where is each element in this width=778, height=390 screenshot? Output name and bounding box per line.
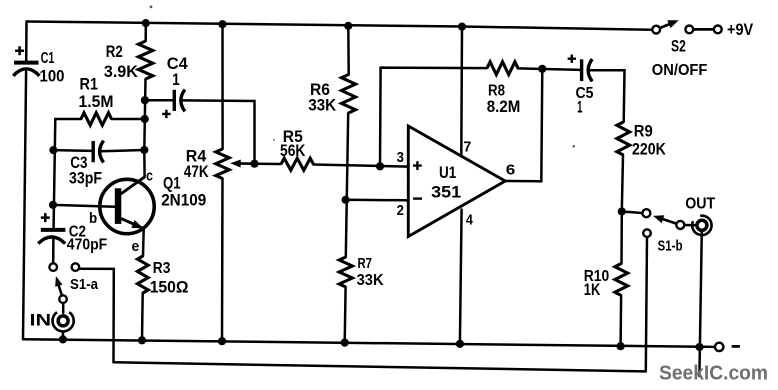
wire OUT jack stem	[699, 231, 701, 376]
switch S1-a pole contact	[49, 263, 57, 271]
svg-text:U1: U1	[439, 164, 456, 182]
wire bypass rail	[114, 362, 646, 371]
value C4 1	[172, 70, 180, 89]
wire IN switch stem	[62, 303, 65, 313]
wire R1 right lead	[112, 118, 144, 121]
svg-text:e: e	[132, 238, 140, 255]
svg-text:Q1: Q1	[163, 175, 181, 193]
junction R1 tap	[141, 115, 149, 123]
svg-text:33K: 33K	[357, 272, 385, 289]
S2 blade arrowhead	[667, 20, 678, 28]
wire R4 branch top	[221, 24, 224, 149]
C5 polarity plus	[568, 55, 576, 63]
value R6 33K	[308, 97, 336, 115]
label S2	[671, 37, 686, 55]
label C3	[70, 154, 87, 172]
potentiometer R4 47K	[216, 149, 229, 179]
wire S2 contact link	[693, 28, 714, 31]
Q1 emitter stroke	[121, 218, 144, 228]
svg-text:33pF: 33pF	[69, 170, 102, 188]
wire IN jack ground stem	[62, 332, 65, 340]
OUT jack outer ring	[692, 216, 711, 235]
svg-text:S2: S2	[671, 37, 686, 55]
wire pin7	[460, 27, 463, 156]
svg-text:2N109: 2N109	[161, 192, 206, 210]
wire R2 top lead	[144, 23, 147, 41]
resistor R7 33K	[339, 257, 352, 287]
svg-text:1: 1	[172, 70, 180, 89]
label R2	[106, 43, 123, 61]
junction C4 tap	[141, 96, 149, 104]
svg-text:SeekIC.com: SeekIC.com	[659, 361, 768, 384]
pin 6	[506, 162, 516, 179]
label C2	[69, 224, 86, 241]
resistor R3 150ohm	[137, 256, 148, 293]
speck	[573, 145, 576, 148]
svg-text:R8: R8	[488, 82, 505, 99]
svg-text:56K: 56K	[280, 142, 306, 160]
wire S1b pole lead	[622, 212, 643, 214]
pin 2	[397, 202, 404, 219]
capacitor C1 100	[13, 63, 39, 76]
S1-a common	[59, 295, 67, 303]
watermark SeekIC.com	[659, 361, 768, 384]
wire R8 to C5	[518, 68, 580, 70]
junction top rail pin7	[458, 23, 466, 31]
label R9	[634, 122, 653, 140]
pin 7	[463, 139, 471, 156]
speck	[273, 139, 275, 141]
value R7 33K	[357, 272, 385, 289]
wire R10 bottom lead	[619, 296, 622, 347]
junction ground R4	[218, 337, 226, 345]
label IN	[30, 311, 52, 330]
svg-text:+9V: +9V	[727, 21, 753, 39]
svg-text:7: 7	[463, 139, 471, 156]
wire C4 left lead	[145, 99, 173, 102]
Q1 base label b	[89, 210, 97, 227]
junction ground IN jack	[59, 335, 67, 343]
wire noninverting input	[255, 162, 282, 165]
wire bottom ground rail	[23, 339, 715, 347]
label OUT	[685, 196, 715, 213]
label S1-a	[70, 277, 99, 293]
junction ground R7	[341, 339, 349, 347]
svg-text:100: 100	[40, 67, 65, 86]
svg-text:1K: 1K	[584, 281, 601, 299]
S1-b blade	[660, 218, 677, 224]
wire node to R10	[620, 212, 623, 264]
switch S2 pole contact	[652, 26, 660, 34]
capacitor C4 1	[174, 90, 185, 112]
label C4	[167, 55, 188, 73]
wire S1a throw lead	[79, 269, 114, 363]
transistor Q1 circle	[100, 179, 154, 233]
svg-text:33K: 33K	[308, 97, 336, 115]
value C3 33pF	[69, 170, 102, 188]
resistor R9 220K	[617, 122, 630, 155]
Q1 emitter label e	[132, 238, 140, 255]
svg-text:47K: 47K	[184, 163, 209, 181]
label R3	[153, 260, 171, 277]
svg-text:2: 2	[397, 202, 404, 219]
label Q1	[163, 175, 181, 193]
value Q1 2N109	[161, 192, 206, 210]
value R5 56K	[280, 142, 306, 160]
wire emitter lead	[142, 229, 145, 256]
S1-a blade	[58, 284, 62, 296]
junction C3 left tap	[49, 146, 57, 154]
wire left vertical rail lower	[23, 72, 26, 340]
wire left branch lower	[52, 239, 55, 264]
Q1 collector stroke	[121, 177, 145, 194]
IN jack inner ring	[58, 316, 68, 326]
label +9V	[727, 21, 753, 39]
switch S1-b pole contact	[642, 209, 650, 217]
label S1-b	[658, 239, 683, 255]
wire inverting input	[346, 199, 409, 202]
svg-text:S1-a: S1-a	[70, 277, 99, 293]
svg-text:1.5M: 1.5M	[79, 93, 114, 111]
svg-text:6: 6	[506, 162, 516, 179]
value R1 1.5M	[79, 93, 114, 111]
junction top rail R4	[218, 20, 226, 28]
value C2 470pF	[67, 236, 108, 253]
wire R9 to S1b node	[622, 155, 623, 212]
value R10 1K	[584, 281, 601, 299]
svg-text:S1-b: S1-b	[658, 239, 683, 255]
svg-text:OUT: OUT	[685, 196, 715, 213]
wire output pin6	[505, 69, 542, 181]
wire R1 left lead	[55, 118, 81, 121]
R4 wiper arrowhead	[230, 160, 241, 168]
value R3 150ohm	[150, 279, 189, 297]
svg-text:1: 1	[577, 98, 583, 116]
svg-text:R1: R1	[80, 76, 99, 94]
junction C3 right tap	[140, 146, 148, 154]
junction R8 C5 output node	[538, 65, 546, 73]
wire S1b throw to OUT jack	[684, 224, 696, 227]
resistor R5 56K	[281, 158, 314, 170]
S1-b blade arrowhead	[653, 215, 664, 223]
svg-text:3: 3	[397, 149, 404, 166]
value R8 8.2M	[487, 98, 521, 116]
junction R9 S1b node	[618, 207, 626, 215]
S2 battery terminal	[714, 26, 722, 34]
svg-text:C1: C1	[41, 50, 55, 67]
label R6	[310, 81, 330, 99]
S1-b lower contact	[643, 229, 651, 237]
Q1 collector label c	[146, 167, 153, 184]
wire feedback left	[380, 68, 487, 167]
junction base node	[49, 201, 57, 209]
wire pin4	[460, 210, 462, 344]
capacitor C5 1	[582, 59, 593, 81]
svg-text:220K: 220K	[632, 140, 666, 158]
resistor R6 33K	[342, 75, 356, 114]
junction feedback to pin3	[376, 162, 384, 170]
wire R6-R7 middle	[346, 113, 348, 257]
svg-text:3.9K: 3.9K	[104, 63, 138, 81]
negative battery terminal	[715, 343, 723, 351]
wire top supply rail	[27, 22, 653, 30]
pin 4	[466, 211, 474, 228]
label R1	[80, 76, 99, 94]
junction wiper node	[250, 160, 258, 168]
svg-text:IN: IN	[30, 311, 52, 330]
value R4 47K	[184, 163, 209, 181]
label R5	[283, 128, 303, 146]
junction ground OUT stem	[695, 343, 703, 351]
wire R5 to pin3	[314, 165, 409, 167]
wire collector branch	[144, 79, 145, 177]
S1-a throw contact	[72, 263, 80, 271]
minus sign	[732, 345, 740, 348]
svg-text:ON/OFF: ON/OFF	[652, 62, 708, 79]
C4 polarity plus	[162, 110, 170, 118]
junction inverting node	[342, 196, 350, 204]
wire C3 right lead	[101, 150, 145, 151]
wire left vertical rail	[25, 22, 28, 63]
value R2 3.9K	[104, 63, 138, 81]
pin 3	[397, 149, 404, 166]
S1-b throw to jack	[676, 221, 684, 229]
U1 minus input mark	[413, 197, 422, 199]
S2 blade	[660, 23, 673, 28]
svg-text:R3: R3	[153, 260, 171, 277]
label ON/OFF	[652, 62, 708, 79]
svg-text:R9: R9	[634, 122, 653, 140]
wire R7 bottom lead	[343, 287, 346, 343]
label R4	[186, 148, 206, 166]
junction top rail R6	[344, 22, 352, 30]
junction ground R10	[617, 342, 625, 350]
svg-text:351: 351	[431, 183, 461, 202]
S1-a blade arrowhead	[55, 276, 62, 287]
svg-text:R2: R2	[106, 43, 123, 61]
C2 polarity plus	[41, 213, 50, 222]
svg-text:c: c	[146, 167, 153, 184]
R4 wiper line	[237, 162, 255, 165]
label C1	[41, 50, 55, 67]
OUT jack inner ring	[697, 220, 707, 230]
svg-text:b: b	[89, 210, 97, 227]
op-amp U1 351 triangle	[408, 126, 505, 237]
value U1 351	[431, 183, 461, 202]
label R10	[584, 268, 609, 285]
wire C3 left lead	[53, 149, 91, 152]
U1 plus input mark	[413, 161, 422, 170]
wire C5 right lead	[589, 70, 624, 122]
resistor R8 8.2M	[487, 62, 518, 75]
wire base	[53, 205, 115, 207]
svg-text:R7: R7	[358, 255, 373, 272]
value R9 220K	[632, 140, 666, 158]
junction ground R3	[138, 336, 146, 344]
capacitor C2 470pF	[38, 230, 65, 244]
S2 middle contact	[685, 26, 693, 34]
junction ground pin4	[456, 340, 464, 348]
Q1 emitter arrow	[131, 220, 143, 229]
C1 polarity plus	[15, 46, 24, 55]
label U1	[439, 164, 456, 182]
resistor R2 3.9K	[138, 41, 152, 79]
resistor R10 1K	[615, 264, 628, 296]
value C1 100	[40, 67, 65, 86]
junction top rail R2	[142, 19, 150, 27]
wire R3 bottom lead	[141, 293, 144, 340]
svg-text:470pF: 470pF	[67, 236, 108, 253]
resistor R1 1.5M	[81, 113, 112, 125]
svg-text:4: 4	[466, 211, 474, 228]
wire C4 to wiper	[183, 100, 255, 163]
label R8	[488, 82, 505, 99]
label R7	[358, 255, 373, 272]
capacitor C3 33pF	[93, 141, 103, 163]
speck	[150, 5, 153, 8]
wire R6 top lead	[347, 26, 350, 75]
IN jack outer ring	[52, 312, 73, 331]
wire S1b lower contact drop	[646, 237, 647, 371]
svg-text:8.2M: 8.2M	[487, 98, 521, 116]
value C5 1	[577, 98, 583, 116]
wire R4 branch bottom	[221, 179, 224, 342]
svg-text:150Ω: 150Ω	[150, 279, 189, 297]
Q1 base bar	[115, 188, 122, 224]
label C5	[576, 85, 594, 102]
wire left branch upper	[54, 119, 56, 228]
